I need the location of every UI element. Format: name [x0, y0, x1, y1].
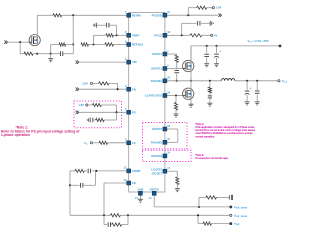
ground sideways PVCC: [209, 21, 211, 26]
input arrow EN-drive: [6, 41, 8, 44]
wire refin to refadj vertical: [72, 15, 74, 44]
wire vref to pin: [114, 34, 127, 36]
junction Q2 phase: [190, 80, 192, 82]
ground snubber: [209, 98, 211, 103]
wire PS row1 corner: [101, 104, 116, 106]
wire pvcc cap to ground: [201, 22, 210, 24]
wire 1.8V EN: [93, 82, 99, 84]
svg-text:UGATE1: UGATE1: [151, 67, 163, 71]
svg-text:COMP: COMP: [132, 169, 141, 173]
junction fsetn branch: [198, 206, 200, 208]
junction source node: [36, 53, 38, 55]
svg-text:normal operation.: normal operation.: [195, 134, 215, 138]
wire refadj to pin: [114, 44, 127, 46]
pin COMP 12: [127, 169, 131, 173]
wire FB vertical: [103, 183, 105, 215]
wire cap2 right: [84, 184, 96, 186]
junction snubber: [209, 80, 211, 82]
ground C-out1: [245, 101, 250, 103]
terminal 1.8V EN: [90, 82, 92, 84]
svg-text:1.8V: 1.8V: [78, 103, 84, 107]
svg-text:PHASE1: PHASE1: [151, 79, 163, 83]
junction cap row: [50, 53, 52, 55]
terminal Vout bottom: [230, 223, 232, 225]
resistor R-PVCC: [190, 34, 202, 37]
wire PHASE1: [167, 80, 221, 82]
wire PS: [79, 111, 127, 113]
arrow PGOOD out: [220, 14, 222, 17]
ground sideways PS: [89, 118, 91, 123]
wire FSETN down: [153, 195, 155, 207]
capacitor C-in1: [206, 46, 208, 53]
wire to REFIN: [62, 14, 127, 16]
wire bottom fb row: [70, 214, 110, 216]
output capacitor C-out1 polarized: [246, 80, 248, 82]
wire comp row mid: [84, 170, 87, 172]
wire EN: [79, 88, 127, 90]
wire gate pulldown: [19, 42, 21, 54]
wire fb parallel branch: [103, 215, 105, 224]
wire FS to pin: [108, 142, 127, 144]
capacitor C-FBp: [107, 222, 109, 227]
capacitor C-BOOT1: [174, 69, 179, 71]
pin GND 21: [138, 191, 142, 195]
wire vref cap to ground: [96, 24, 106, 26]
junction vref: [115, 34, 117, 36]
ground GND pin: [139, 195, 141, 199]
pin EN 3: [127, 87, 131, 91]
junction EN: [117, 88, 119, 90]
wire BOOT2 to PHASE2: [167, 128, 178, 130]
svg-text:PHASE2: PHASE2: [151, 140, 163, 144]
pin FS 9: [127, 141, 131, 145]
resistor R-comp: [75, 169, 84, 172]
resistor R-FS: [99, 141, 108, 144]
junction input cap2: [215, 45, 217, 47]
inductor L1: [221, 79, 234, 81]
capacitor C-vref: [106, 23, 108, 28]
wire vref branch vertical: [93, 35, 95, 44]
svg-text:BOOT1: BOOT1: [152, 52, 162, 56]
junction comp: [95, 170, 97, 172]
svg-text:PGOOD: PGOOD: [152, 13, 162, 17]
wire PS row3 corner: [104, 119, 116, 121]
ground input cap2: [214, 63, 219, 65]
svg-text:PS: PS: [132, 110, 136, 114]
transistor Q2 high-side N-MOSFET: [183, 60, 194, 71]
pin FB 13: [127, 181, 131, 185]
wire Q3 drain: [190, 81, 192, 91]
resistor R-PS1: [93, 103, 102, 106]
pin PGOOD 10: [163, 13, 167, 17]
svg-text:+: +: [219, 49, 221, 53]
svg-text:EN: EN: [132, 87, 136, 91]
wire UGATE1: [167, 68, 182, 70]
wire BOOT1: [167, 53, 177, 55]
resistor R-LGATE1: [175, 96, 177, 103]
svg-text:1-phase operation: 1-phase operation: [1, 133, 30, 137]
wire FB: [104, 182, 127, 184]
pin BOOT2 16: [163, 127, 167, 131]
output capacitor C-out2: [256, 80, 258, 82]
wire cap row left: [51, 53, 60, 55]
junction PS: [115, 111, 117, 113]
resistor R-nodeA: [59, 43, 66, 46]
junction refin-refadj: [72, 14, 74, 16]
wire pgood pullup to terminal: [207, 7, 213, 9]
input arrow VID: [77, 60, 79, 63]
svg-text:VID: VID: [132, 60, 137, 64]
pin PVCC 18: [163, 33, 167, 37]
wire PGOOD: [167, 14, 218, 16]
wire PS row1: [88, 104, 93, 106]
wire refadj mid: [89, 44, 105, 46]
junction LGATE1: [175, 94, 177, 96]
wire Q2 drain: [190, 46, 192, 63]
wire output rail: [235, 80, 278, 82]
wire boot1 mid: [176, 62, 178, 69]
wire drain top: [37, 14, 53, 16]
pin PHASE2 15: [163, 140, 167, 144]
svg-text:FSETN: FSETN: [150, 188, 159, 192]
svg-text:UGATE2: UGATE2: [151, 154, 163, 158]
transistor Q1 P-MOSFET: [29, 35, 40, 46]
wire VID: [79, 61, 127, 63]
wire boot1 to phase: [176, 74, 178, 81]
dashed box UGATE2: [143, 150, 192, 161]
resistor R-fsetn: [206, 196, 217, 199]
wire vout branch: [197, 215, 199, 223]
pin LGATE2/OCSET 17: [163, 169, 167, 173]
terminal Vin rail: [279, 45, 281, 47]
wire comp row left: [70, 170, 75, 172]
resistor R-gate: [24, 52, 33, 55]
resistor R-refadj2: [105, 43, 114, 46]
ground R-LGATE1: [175, 110, 177, 114]
wire to source node: [33, 53, 37, 55]
dashed box PS setting: [74, 101, 122, 128]
wire gate: [20, 41, 29, 43]
terminal Vin FS: [90, 142, 92, 144]
capacitor C-PVCC: [197, 21, 199, 26]
pin VREF 8: [127, 33, 131, 37]
wire node A up: [50, 45, 52, 54]
wire fsetn rc branch: [198, 197, 200, 207]
terminal Vout: [278, 80, 280, 82]
terminal Vout_sense-: [230, 214, 232, 216]
input arrow EN: [77, 88, 79, 91]
ground input cap1: [204, 63, 209, 65]
svg-text:+: +: [249, 87, 251, 91]
svg-text:PVCC: PVCC: [154, 33, 162, 37]
junction boot1 phase: [176, 80, 178, 82]
resistor R-PGOOD: [197, 6, 207, 9]
ground C-out2: [255, 101, 260, 103]
capacitor C-snubber: [209, 93, 211, 96]
IC body U1: [129, 12, 165, 192]
terminal 1.8V PGOOD: [212, 7, 214, 9]
ground under node A: [50, 54, 52, 59]
svg-text:FS: FS: [132, 141, 136, 145]
wire to cap end: [217, 196, 230, 198]
svg-text:GND: GND: [137, 188, 143, 192]
pin LGATE1/VSS 19: [163, 94, 167, 98]
svg-text:VREF: VREF: [132, 33, 140, 37]
svg-text:Vin = 2.5V~25V: Vin = 2.5V~25V: [248, 39, 270, 44]
svg-text:FB: FB: [132, 181, 136, 185]
junction PGOOD: [187, 14, 189, 16]
pin FSETN 11: [152, 191, 156, 195]
terminal 5V: [211, 34, 213, 36]
wire EN pullup corner: [109, 82, 118, 84]
junction refadj left: [72, 43, 74, 45]
capacitor C-fsetn end: [228, 195, 230, 199]
wire R-nodeA to junction: [66, 44, 74, 46]
ground R-LGATE2: [176, 185, 178, 189]
resistor R-snubber: [209, 81, 211, 87]
wire cap row right: [63, 53, 73, 55]
svg-text:REFIN: REFIN: [132, 13, 140, 17]
wire PGOOD pullup: [187, 8, 189, 16]
capacitor C-nodeA: [59, 51, 61, 56]
wire vout to terminal: [212, 223, 230, 225]
svg-text:REFADJ: REFADJ: [132, 43, 143, 47]
wire vref row: [94, 34, 106, 36]
terminal 1.8V PS: [86, 104, 88, 106]
capacitor C-in2 polarized: [216, 46, 218, 53]
resistor R-EN pullup: [99, 82, 109, 85]
junction PVCC: [181, 34, 183, 36]
wire PVCC: [167, 34, 190, 36]
svg-text:BOOT2: BOOT2: [152, 127, 162, 131]
pin REFADJ 6: [127, 43, 131, 47]
wire fb parallel up: [122, 224, 128, 226]
wire LGATE2: [167, 170, 177, 172]
junction refadj mid: [92, 43, 94, 45]
wire source to cap row: [37, 53, 50, 55]
junction comp cap2: [69, 184, 71, 186]
resistor R-refadj1: [81, 43, 89, 46]
resistor R-vout: [203, 222, 212, 225]
input arrow PS: [77, 111, 79, 114]
resistor R-FB: [110, 214, 120, 217]
wire comp to junction: [92, 170, 127, 172]
wire Vin rail: [191, 45, 280, 47]
svg-text:1.8V: 1.8V: [216, 6, 222, 10]
pin UGATE1 2: [163, 67, 167, 71]
svg-text:Un-used pins can be left open.: Un-used pins can be left open.: [195, 156, 229, 160]
pin VID 5: [127, 60, 131, 64]
resistor R-LGATE2: [176, 177, 179, 185]
wire LGATE1: [167, 95, 182, 97]
capacitor C-comp: [87, 169, 89, 174]
pin BOOT1 1: [163, 52, 167, 56]
pin PHASE1 20: [163, 79, 167, 83]
resistor R-vref: [106, 34, 114, 37]
junction gate: [19, 41, 21, 43]
junction fb1: [103, 214, 105, 216]
wire PVCC cap branch: [181, 23, 183, 35]
pin PS 4: [127, 110, 131, 114]
wire pvcc to 5V: [202, 34, 211, 36]
svg-text:5V: 5V: [214, 33, 218, 37]
wire vref cap vertical: [116, 25, 118, 35]
resistor R-BOOT1: [175, 55, 178, 62]
wire Q3 source to ground: [190, 97, 192, 104]
wire cap2 left: [70, 184, 80, 186]
ground sideways vref: [95, 23, 97, 28]
capacitor C-comp2: [80, 183, 82, 188]
wire bottom fb row right: [120, 214, 230, 216]
pin UGATE2 14: [163, 154, 167, 158]
junction input cap1: [206, 45, 208, 47]
wire comp vertical: [69, 171, 71, 215]
wire Q2 source: [190, 70, 192, 81]
resistor R-PS2: [93, 119, 96, 121]
capacitor C-PS: [92, 118, 94, 123]
terminal Vout_sense+: [230, 206, 232, 208]
wire Q1 drain up: [36, 15, 38, 34]
svg-text:LGATE1/VSS: LGATE1/VSS: [145, 94, 162, 98]
pin REFIN 7: [127, 13, 131, 17]
dashed box BOOT2-PHASE2: [143, 123, 188, 149]
resistor R-refin: [53, 14, 62, 17]
svg-text:/OCSET: /OCSET: [152, 171, 163, 175]
wire FS left: [93, 142, 100, 144]
ground Q3: [189, 103, 194, 105]
transistor Q3 low-side N-MOSFET: [183, 88, 194, 99]
resistor R-FBp: [112, 223, 122, 226]
junction fb2: [127, 214, 129, 216]
svg-text:1.8V: 1.8V: [82, 82, 88, 86]
